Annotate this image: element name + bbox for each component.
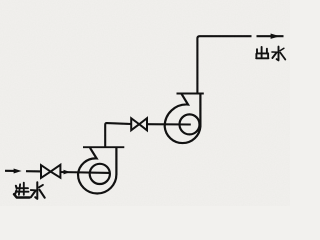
wire inlet line segment 1 — [5, 170, 16, 172]
label 出水 outlet water text — [256, 47, 285, 61]
wire pump P2 discharge riser and top elbow — [197, 36, 251, 93]
wire V2 to pump P2 suction — [147, 123, 191, 125]
pump P2 casing volute — [165, 94, 201, 143]
pump P2 impeller circle — [180, 114, 200, 134]
pump P1 impeller circle — [90, 164, 110, 184]
pump P1 casing volute — [78, 148, 116, 194]
wire inlet line segment 2 — [26, 170, 42, 172]
paper background — [0, 0, 290, 206]
valve V2 — [131, 118, 147, 130]
wire V1 to pump P1 suction — [60, 171, 109, 174]
arrow flow after V1 — [64, 170, 71, 175]
wire pump P1 discharge riser and elbow to valve V2 — [105, 123, 131, 147]
pump P1 discharge flange — [83, 146, 124, 148]
arrow inlet flow — [14, 169, 22, 174]
scan grain overlay — [0, 0, 290, 206]
wire outlet line segment — [257, 35, 284, 37]
arrow outlet flow — [271, 34, 280, 39]
pump P2 discharge flange — [177, 93, 204, 95]
valve V1 — [41, 165, 60, 178]
label 进水 inlet water text — [14, 182, 45, 199]
